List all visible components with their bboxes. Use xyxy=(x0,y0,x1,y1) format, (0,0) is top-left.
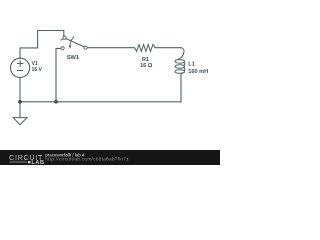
label R1 value xyxy=(140,57,153,69)
junction dot at switch branch node xyxy=(54,100,58,104)
switch actuation arrow xyxy=(70,37,74,46)
switch SW1 xyxy=(61,36,87,50)
wire L1 bottom to rail xyxy=(180,74,182,102)
resistor R1 xyxy=(135,45,156,52)
wire V1 top to step xyxy=(20,31,64,59)
svg-text:16 V: 16 V xyxy=(32,67,43,73)
label V1 value xyxy=(32,61,43,73)
throw terminal top xyxy=(63,36,66,39)
svg-text:SW1: SW1 xyxy=(67,55,79,61)
svg-text:LAB: LAB xyxy=(31,160,44,165)
bottom rail wire xyxy=(20,101,181,103)
wire switch common to R1 xyxy=(87,47,134,49)
svg-text:16 Ω: 16 Ω xyxy=(140,63,153,69)
inductor L1 xyxy=(175,48,185,74)
voltage source V1 xyxy=(11,58,30,77)
CircuitLab logo text xyxy=(9,155,44,166)
wire switch bottom throw to bottom rail xyxy=(56,48,61,101)
svg-text:160 mH: 160 mH xyxy=(188,69,208,75)
svg-text:R1: R1 xyxy=(142,57,149,63)
watermark bar xyxy=(0,150,220,165)
throw terminal bottom xyxy=(61,47,64,50)
common terminal xyxy=(84,46,87,49)
wire rail to ground xyxy=(19,102,21,118)
wire V1 bottom to rail xyxy=(19,78,21,102)
wire R1 to L1 top xyxy=(155,47,181,49)
svg-text:L1: L1 xyxy=(188,62,195,68)
svg-text:http://circuitlab.com/c68ta8ab: http://circuitlab.com/c68ta8ab7fki7z xyxy=(45,157,129,163)
label L1 value xyxy=(188,62,208,75)
switch lever xyxy=(61,39,85,48)
junction dot at V1 bottom node xyxy=(18,100,22,104)
ground xyxy=(13,118,27,125)
